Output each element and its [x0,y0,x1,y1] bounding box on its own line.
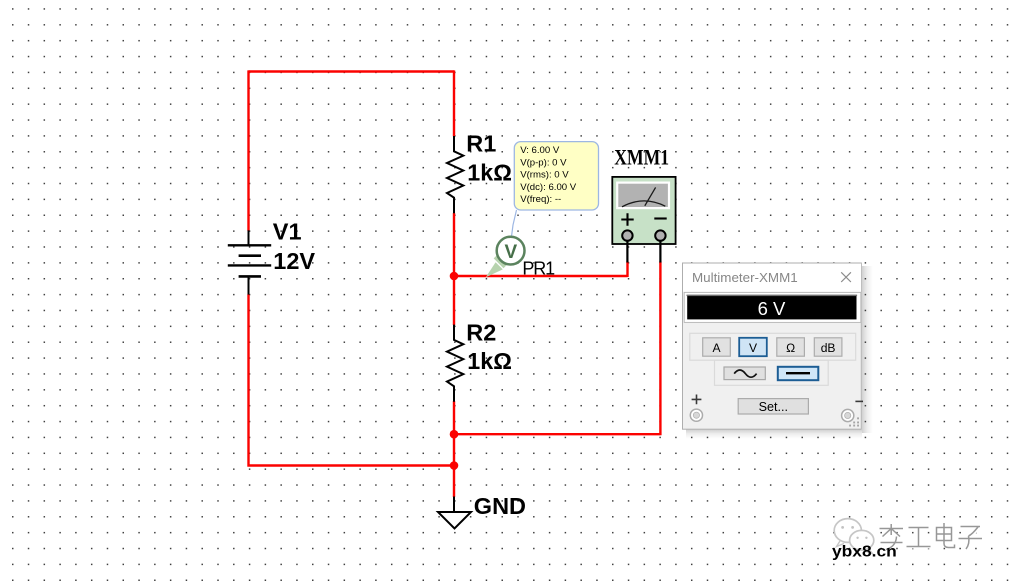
svg-text:V(rms): 0 V: V(rms): 0 V [520,170,569,181]
svg-text:V: 6.00 V: V: 6.00 V [520,145,560,156]
wire V1 bottom to ground rail [247,294,454,466]
XMM1 minus sign [654,217,666,219]
svg-text:Set...: Set... [759,400,788,414]
node junction lower (XMM1 minus node) [450,430,459,439]
multimeter panel window [683,263,862,429]
XMM1 plus terminal [622,230,632,240]
svg-text:dB: dB [821,341,836,355]
panel plus terminal [690,409,702,421]
tooltip text [520,145,577,205]
wire lower node to GND stem [453,434,455,497]
probe PR1 needle blade [486,262,503,277]
probe tooltip readout box [514,142,598,210]
wire right vertical into R1 [453,70,455,136]
svg-text:1kΩ: 1kΩ [467,160,512,186]
svg-text:V1: V1 [273,219,302,245]
wire top (V1+ to R1 top) [249,70,455,72]
wire R1 bottom to middle node [453,213,455,277]
svg-text:PR1: PR1 [522,258,555,278]
watermark text 李工电子 (hand drawn strokes) [881,524,984,551]
panel mode group box [690,333,856,360]
button dB [814,338,842,356]
wire lower node to XMM1 minus [454,262,660,436]
panel title bar [683,264,861,292]
wire R2 bottom to lower node [453,401,455,434]
svg-text:1kΩ: 1kΩ [467,348,512,374]
XMM1 icon screen [617,183,669,209]
watermark wechat logo big bubble [834,519,861,543]
button Ω [777,338,805,356]
panel minus terminal [842,409,854,421]
panel close button [841,272,851,282]
tooltip tail [512,210,517,237]
XMM1 plus sign [621,213,633,225]
svg-text:V: V [749,341,758,355]
multimeter XMM1 icon box [612,177,675,244]
svg-text:V(dc): 6.00 V: V(dc): 6.00 V [520,182,577,193]
wire left vertical (V1 top lead) [247,70,249,230]
probe PR1 circle [497,237,525,265]
svg-text:GND: GND [474,493,526,519]
ground symbol [453,497,455,513]
svg-text:R1: R1 [466,131,496,157]
XMM1 terminal lead wires (black) [627,241,660,263]
watermark wechat logo small bubble [850,530,874,550]
panel drop shadow [862,266,873,433]
svg-text:A: A [712,341,721,355]
wire middle node down to R2 [453,276,455,325]
svg-text:XMM1: XMM1 [614,145,669,170]
panel resize grip [849,417,859,426]
svg-text:Ω: Ω [786,341,795,355]
button AC (sine) [724,367,765,380]
panel plus label [692,395,702,405]
node junction ground rail [450,461,459,470]
button Set... [738,399,808,414]
button A [703,338,731,356]
node junction middle (PR1 node) [450,272,459,281]
svg-text:R2: R2 [466,319,496,345]
XMM1 screen arc [622,201,665,207]
probe PR1 needle collar [495,257,505,267]
panel display inner top shadow [687,295,858,297]
svg-text:V(freq): --: V(freq): -- [520,194,561,205]
resistor R2 [447,325,463,402]
wire middle node to XMM1 plus [454,262,628,278]
resistor R1 [447,136,463,213]
svg-text:Multimeter-XMM1: Multimeter-XMM1 [692,270,798,285]
panel waveform group box [715,360,829,385]
svg-text:6 V: 6 V [758,298,786,319]
svg-text:V(p-p): 0 V: V(p-p): 0 V [520,157,567,168]
svg-text:12V: 12V [273,248,315,274]
battery V1 symbol [228,230,271,294]
svg-text:ybx8.cn: ybx8.cn [832,544,897,561]
XMM1 minus terminal [655,230,665,240]
panel minus label [855,400,863,402]
button DC (selected) [778,367,819,380]
button V (selected) [739,338,767,356]
svg-text:V: V [505,242,518,263]
panel display bezel [684,292,861,322]
panel display screen [687,296,856,320]
XMM1 screen needle [645,187,656,205]
